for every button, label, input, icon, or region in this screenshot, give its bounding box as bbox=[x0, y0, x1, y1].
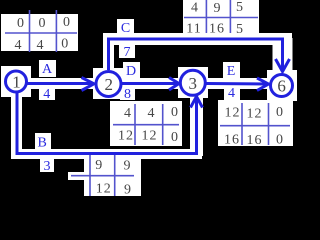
node 3 digit bbox=[189, 74, 198, 93]
white patch table T4 bbox=[218, 100, 293, 146]
svg-text:E: E bbox=[227, 64, 236, 79]
svg-text:4: 4 bbox=[124, 106, 131, 121]
svg-text:1: 1 bbox=[12, 73, 21, 92]
svg-text:12: 12 bbox=[96, 182, 112, 197]
svg-text:4: 4 bbox=[148, 106, 155, 121]
table T3 digits row 1: 4 4 0 bbox=[124, 105, 178, 121]
svg-text:5: 5 bbox=[236, 22, 243, 37]
white patch node 6 bbox=[267, 70, 297, 101]
white patch table T3 bbox=[110, 101, 182, 146]
white patch node 2 bbox=[93, 68, 124, 99]
table T3 digits row 2: 12 12 0 bbox=[118, 129, 178, 146]
white patch path B arrow into node 3 bbox=[190, 96, 203, 156]
label 4 duration of A bbox=[43, 87, 50, 102]
wire path B (node 1 down, right, up into node 3) bbox=[17, 93, 197, 154]
node 2 digit bbox=[105, 75, 114, 94]
svg-text:0: 0 bbox=[171, 130, 178, 145]
white patch label C bbox=[117, 19, 134, 34]
label B bbox=[38, 136, 47, 151]
svg-text:4: 4 bbox=[228, 86, 235, 101]
svg-text:C: C bbox=[121, 21, 130, 36]
white patch path C horizontal bbox=[103, 33, 292, 45]
node 1 digit bbox=[12, 73, 21, 92]
svg-text:8: 8 bbox=[124, 87, 131, 102]
table T4 grid lines bbox=[220, 103, 290, 145]
node 2 circle bbox=[96, 72, 121, 97]
white patch label B bbox=[35, 133, 51, 149]
white patch label 4 of A bbox=[39, 84, 55, 100]
white patch path B vertical from node 1 bbox=[11, 93, 22, 158]
label 4 duration of E bbox=[228, 86, 235, 101]
svg-text:0: 0 bbox=[276, 105, 283, 120]
table T3 grid lines bbox=[113, 104, 179, 145]
svg-text:11: 11 bbox=[186, 22, 201, 37]
svg-text:16: 16 bbox=[224, 133, 240, 148]
arrowhead of E bbox=[257, 78, 269, 91]
label 8 duration of D bbox=[124, 87, 131, 102]
svg-text:2: 2 bbox=[105, 75, 114, 94]
svg-text:4: 4 bbox=[37, 38, 44, 53]
arrow E (node 3 to node 6) bbox=[207, 82, 268, 86]
white patch table T1 bbox=[1, 14, 78, 51]
svg-text:9: 9 bbox=[214, 1, 221, 16]
white patch label 7 bbox=[119, 43, 135, 58]
label D bbox=[126, 64, 136, 79]
label E bbox=[227, 64, 236, 79]
white patch node 3 bbox=[178, 67, 208, 98]
node 3 circle bbox=[180, 70, 205, 95]
label 7 duration of C bbox=[124, 45, 131, 60]
svg-text:12: 12 bbox=[118, 129, 134, 144]
svg-text:0: 0 bbox=[171, 105, 178, 120]
table T1 digits row 2: 4 4 0 bbox=[15, 37, 69, 54]
white patch table T2 bbox=[183, 0, 259, 33]
svg-text:B: B bbox=[38, 136, 47, 151]
svg-text:0: 0 bbox=[276, 133, 283, 148]
label 3 duration of B bbox=[44, 159, 51, 174]
svg-text:A: A bbox=[42, 62, 53, 77]
table T2 grid lines bbox=[184, 0, 258, 33]
svg-text:0: 0 bbox=[63, 15, 70, 30]
svg-text:0: 0 bbox=[17, 16, 24, 31]
table T1 grid lines bbox=[5, 10, 77, 52]
node 6 circle bbox=[271, 75, 293, 97]
white patch label 8 bbox=[120, 85, 135, 100]
arrowhead of D bbox=[169, 78, 179, 91]
white patch label A bbox=[39, 60, 56, 77]
svg-text:12: 12 bbox=[247, 107, 263, 122]
table T2 digits row 1: 4 9 5 bbox=[191, 0, 243, 16]
white patch table T5 left line stub bbox=[68, 172, 86, 180]
white patch arrow E bbox=[205, 78, 270, 89]
svg-text:5: 5 bbox=[236, 0, 243, 15]
svg-text:0: 0 bbox=[61, 37, 68, 52]
arrowhead of B at node 3 bbox=[191, 97, 203, 108]
svg-text:7: 7 bbox=[124, 45, 131, 60]
table T5 digits row 1: 9 9 bbox=[95, 158, 130, 174]
svg-text:9: 9 bbox=[124, 183, 131, 198]
svg-text:0: 0 bbox=[39, 16, 46, 31]
table T1 digits row 1: 0 0 0 bbox=[17, 15, 70, 31]
white patch label 4 of E bbox=[224, 85, 240, 100]
svg-text:16: 16 bbox=[247, 133, 263, 148]
table T5 digits row 2: 12 9 bbox=[96, 182, 131, 198]
white patch path C vertical at node 2 bbox=[103, 38, 114, 71]
arrow D (node 2 to node 3) bbox=[122, 82, 178, 85]
white patch arrow D bbox=[121, 78, 180, 89]
svg-text:3: 3 bbox=[44, 159, 51, 174]
white patch label D bbox=[123, 62, 140, 78]
svg-text:4: 4 bbox=[15, 38, 22, 53]
svg-text:6: 6 bbox=[277, 77, 286, 96]
arrowhead of C at node 6 bbox=[276, 59, 290, 72]
table T4 digits row 1: 12 12 0 bbox=[225, 105, 284, 122]
white patch table T5 bbox=[84, 156, 141, 196]
table T4 digits row 2: 16 16 0 bbox=[224, 133, 283, 149]
white patch node 1 bbox=[1, 66, 31, 97]
arrowhead of A bbox=[82, 78, 95, 91]
svg-text:16: 16 bbox=[209, 22, 225, 37]
svg-text:9: 9 bbox=[124, 159, 131, 174]
white patch label 3 bbox=[40, 157, 54, 172]
svg-text:4: 4 bbox=[43, 87, 50, 102]
white patch path C arrow into node 6 bbox=[273, 38, 293, 72]
svg-text:12: 12 bbox=[225, 106, 241, 121]
node 1 circle bbox=[6, 71, 27, 92]
table T2 digits row 2: 11 16 5 bbox=[186, 22, 243, 38]
svg-text:12: 12 bbox=[142, 129, 158, 144]
background canvas bbox=[0, 0, 300, 200]
svg-text:3: 3 bbox=[189, 74, 198, 93]
svg-text:9: 9 bbox=[95, 158, 102, 173]
label C bbox=[121, 21, 130, 36]
white patch path B horizontal bbox=[11, 149, 202, 159]
node 6 digit bbox=[277, 77, 286, 96]
label A bbox=[42, 62, 53, 77]
table T5 grid lines bbox=[71, 155, 134, 196]
white patch arrow A bbox=[26, 78, 97, 89]
white patch label E bbox=[223, 62, 240, 78]
wire path C (node 2 up, right, down into node 6) bbox=[109, 39, 283, 70]
svg-text:D: D bbox=[126, 64, 136, 79]
arrow A (node 1 to node 2) bbox=[28, 82, 94, 85]
svg-text:4: 4 bbox=[191, 1, 198, 16]
